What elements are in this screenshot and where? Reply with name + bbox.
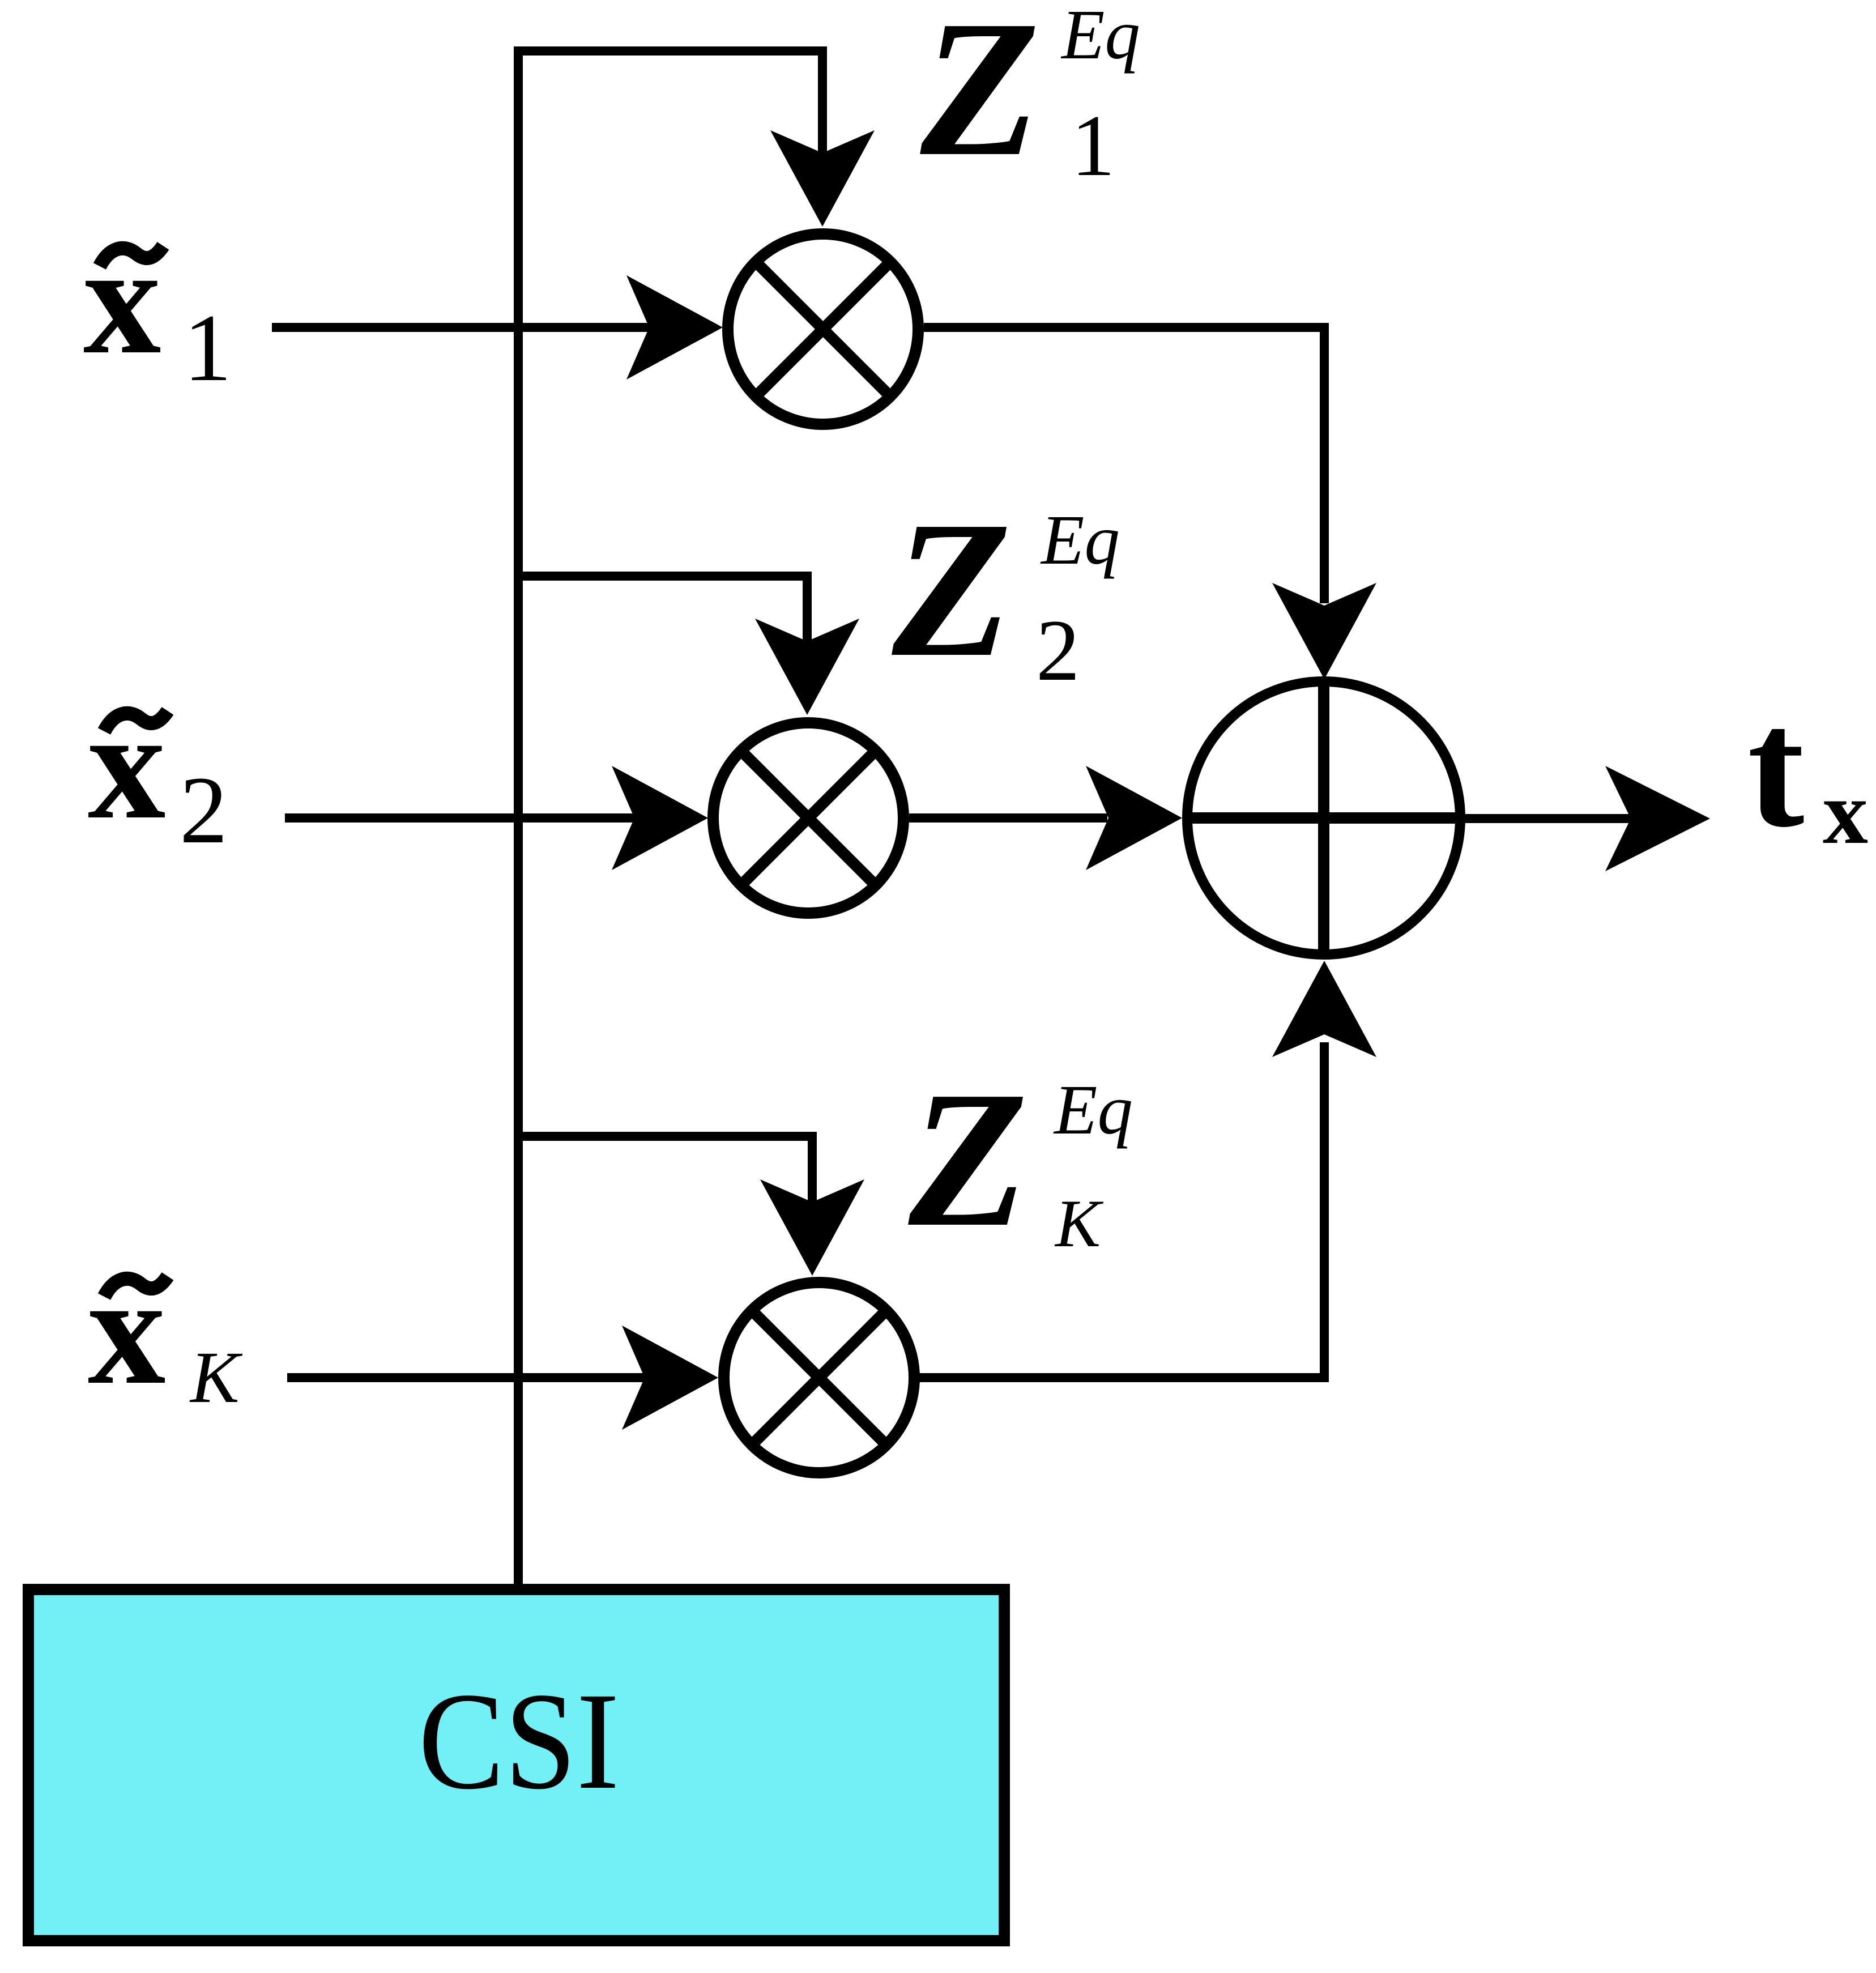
svg-text:Z: Z [918, 0, 1040, 197]
svg-text:x: x [88, 1245, 166, 1417]
node label xK tilde [104, 1276, 168, 1297]
node label x1 tilde [100, 246, 163, 266]
svg-text:1: 1 [184, 295, 232, 401]
node arrow into M3 top [760, 1179, 864, 1276]
svg-text:Eq: Eq [1040, 501, 1120, 579]
node label x2 tilde [104, 711, 168, 731]
svg-text:Z: Z [889, 481, 1012, 697]
summer S1 [1187, 681, 1460, 954]
wire branch 1 from bus to multiplier M1 [514, 51, 822, 164]
wire CSI bus vertical [514, 46, 523, 1586]
svg-text:x: x [1823, 762, 1868, 863]
node arrow into summer top [1272, 583, 1376, 679]
svg-text:x: x [83, 214, 161, 386]
wire summer output [1460, 814, 1637, 823]
svg-text:1: 1 [1071, 97, 1115, 194]
node output arrow [1605, 766, 1710, 871]
wire input xK [287, 1373, 654, 1382]
node arrow into summer bottom [1272, 961, 1376, 1057]
multiplier M1 [728, 234, 918, 424]
node arrow into M1 top [770, 130, 875, 227]
node arrow into summer left [1086, 766, 1182, 870]
svg-text:Z: Z [906, 1051, 1028, 1267]
svg-text:K: K [1054, 1186, 1104, 1261]
wire branch 2 from bus to multiplier M2 [514, 576, 807, 651]
svg-text:K: K [189, 1337, 243, 1418]
multiplier M2 [713, 723, 903, 913]
node arrow into M3 left [622, 1326, 718, 1430]
svg-text:2: 2 [180, 757, 228, 863]
node arrow into M2 top [755, 619, 859, 715]
wire M2 output to summer left [909, 813, 1107, 823]
wire input x2 [285, 813, 643, 823]
wire input x1 [272, 323, 657, 332]
svg-text:Eq: Eq [1060, 0, 1140, 74]
node arrow into M1 left [626, 275, 723, 380]
svg-text:Eq: Eq [1053, 1071, 1133, 1149]
svg-text:CSI: CSI [419, 1664, 620, 1818]
node arrow into M2 left [612, 766, 708, 870]
wire M1 output to summer top [924, 327, 1324, 603]
multiplier M3 [724, 1282, 914, 1473]
CSI box [28, 1590, 1004, 1941]
wire M3 output to summer bottom [914, 1042, 1324, 1378]
svg-text:x: x [88, 679, 166, 851]
svg-text:2: 2 [1036, 602, 1080, 699]
svg-text:t: t [1747, 674, 1806, 863]
wire branch 3 from bus to multiplier M3 [514, 1136, 812, 1212]
